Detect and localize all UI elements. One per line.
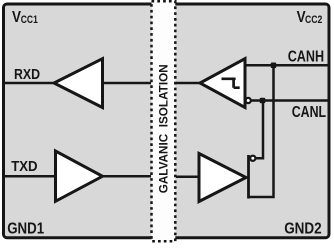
svg-text:GALVANIC ISOLATION: GALVANIC ISOLATION (157, 64, 171, 193)
wire TXD input (left border to buffer) (4, 175, 57, 178)
driver output bar (247, 155, 250, 199)
svg-text:CC2: CC2 (305, 14, 322, 26)
buffer RXD (triangle pointing left) (54, 59, 103, 108)
bubble on driver CANL output (250, 156, 255, 161)
wire CANH branch down to driver lower output (249, 65, 274, 197)
svg-text:GND1: GND1 (7, 221, 44, 238)
hysteresis symbol inside receiver (222, 79, 240, 88)
buffer TXD (triangle pointing right) (56, 151, 103, 201)
wire CANH (receiver top input to right border) (245, 64, 329, 67)
junction node on CANL (260, 98, 266, 104)
op-amp D driver (triangle pointing right) (199, 154, 246, 202)
wire RXD input (left border to buffer tip) (4, 82, 54, 85)
galvanic isolation barrier strip (152, 1, 176, 241)
wire driver input from isolation barrier (176, 176, 199, 179)
svg-text:RXD: RXD (14, 66, 40, 83)
wire CANL branch down to driver bubble output (255, 101, 263, 159)
op-amp R receiver (triangle pointing left) (200, 59, 245, 108)
svg-text:CANL: CANL (292, 104, 327, 121)
wire TXD buffer output to isolation barrier (103, 175, 152, 178)
wire receiver input from isolation barrier (176, 82, 200, 85)
bubble on receiver CANL input (246, 98, 251, 103)
svg-text:CANH: CANH (288, 49, 324, 66)
svg-text:GND2: GND2 (284, 221, 322, 238)
wire RXD buffer output to isolation barrier (103, 82, 152, 85)
svg-text:CC1: CC1 (21, 14, 38, 26)
junction node on CANH (271, 63, 277, 69)
svg-text:TXD: TXD (11, 158, 38, 175)
wire CANL (receiver bubble to right border) (251, 99, 329, 102)
